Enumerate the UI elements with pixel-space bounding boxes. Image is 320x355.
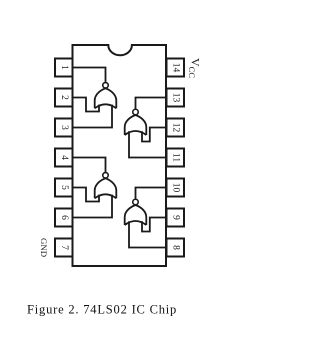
pin 6 box — [55, 209, 73, 227]
svg-text:5: 5 — [59, 185, 69, 190]
pin 4 box — [55, 149, 73, 167]
wire: pin 6 to gate G2 input B — [73, 195, 113, 218]
wire: gate G3 output to pin 13 — [136, 98, 167, 110]
NOR gate G2 (output pin 4, inputs pins 5,6) — [95, 173, 117, 199]
svg-text:6: 6 — [59, 215, 69, 220]
NOR gate G1 (output pin 1, inputs pins 2,3) — [95, 83, 117, 109]
wire: pin 2 to gate G1 input A — [73, 98, 100, 112]
pin 9 box — [167, 209, 185, 227]
wire: pin 12 to gate G3 input B — [142, 128, 166, 142]
svg-text:11: 11 — [170, 153, 180, 162]
svg-text:4: 4 — [59, 155, 69, 160]
svg-text:1: 1 — [59, 65, 69, 70]
NOR gate G3 (output pin 13, inputs pins 11,12) — [125, 109, 147, 135]
svg-text:2: 2 — [59, 95, 69, 100]
svg-text:14: 14 — [170, 63, 180, 73]
NOR gate G4 (output pin 10, inputs pins 8,9) — [125, 199, 147, 225]
wire: gate G2 output to pin 4 — [73, 158, 106, 173]
pin 5 box — [55, 179, 73, 197]
wire: pin 9 to gate G4 input B — [142, 218, 166, 232]
pin 11 box — [167, 149, 185, 167]
pin 10 box — [167, 179, 185, 197]
svg-text:13: 13 — [170, 93, 180, 103]
svg-text:8: 8 — [170, 245, 180, 250]
svg-text:9: 9 — [170, 215, 180, 220]
IC U1 body (14-pin DIP outline with notch) — [73, 45, 167, 266]
pin 8 box — [167, 239, 185, 257]
pin 13 box — [167, 89, 185, 107]
pin 14 box — [167, 59, 185, 77]
pin 2 box — [55, 89, 73, 107]
wire: pin 8 to gate G4 input A — [129, 221, 166, 247]
svg-text:10: 10 — [170, 183, 180, 193]
pin 3 box — [55, 119, 73, 137]
svg-text:7: 7 — [59, 245, 69, 250]
wire: gate G4 output to pin 10 — [136, 188, 167, 200]
wire: pin 5 to gate G2 input A — [73, 188, 100, 202]
svg-text:12: 12 — [170, 123, 180, 133]
pin 7 box — [55, 239, 73, 257]
svg-text:3: 3 — [59, 125, 69, 130]
wire: pin 11 to gate G3 input A — [129, 131, 166, 157]
wire: gate G1 output to pin 1 — [73, 68, 106, 83]
pin 1 box — [55, 59, 73, 77]
wire: pin 3 to gate G1 input B — [73, 105, 113, 128]
svg-text:Figure 2. 74LS02 IC Chip: Figure 2. 74LS02 IC Chip — [27, 303, 177, 317]
pin 12 box — [167, 119, 185, 137]
svg-text:GND: GND — [39, 238, 49, 257]
